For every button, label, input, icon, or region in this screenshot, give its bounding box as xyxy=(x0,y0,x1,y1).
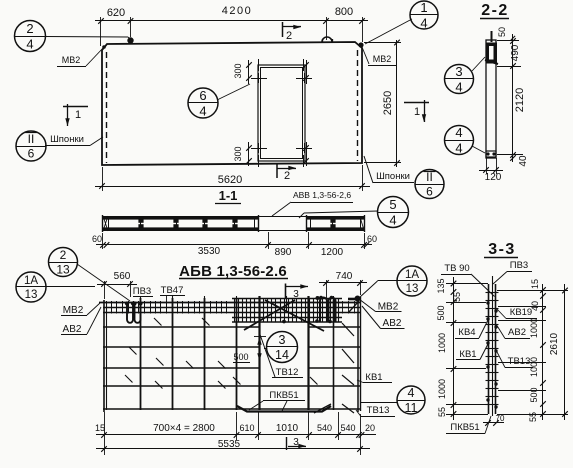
svg-text:ТВ 90: ТВ 90 xyxy=(444,263,469,274)
svg-text:4: 4 xyxy=(389,212,396,227)
svg-text:135: 135 xyxy=(436,278,446,293)
svg-text:3530: 3530 xyxy=(198,246,221,257)
svg-text:2: 2 xyxy=(60,248,67,262)
svg-text:2: 2 xyxy=(26,21,33,36)
svg-text:14: 14 xyxy=(275,348,289,362)
svg-text:55: 55 xyxy=(528,412,538,422)
svg-text:3: 3 xyxy=(293,289,299,300)
svg-text:40: 40 xyxy=(518,155,529,167)
svg-text:60: 60 xyxy=(92,234,102,244)
svg-text:13: 13 xyxy=(56,262,70,276)
svg-text:1А: 1А xyxy=(24,275,38,287)
svg-text:610: 610 xyxy=(239,423,254,433)
svg-text:560: 560 xyxy=(114,271,131,282)
svg-text:4: 4 xyxy=(408,386,415,400)
svg-text:15: 15 xyxy=(530,279,540,289)
svg-text:ПВ3: ПВ3 xyxy=(133,286,151,297)
svg-text:6: 6 xyxy=(28,146,35,160)
svg-text:2650: 2650 xyxy=(382,91,394,115)
svg-text:ТВ13: ТВ13 xyxy=(508,356,531,367)
svg-text:13: 13 xyxy=(25,289,38,301)
svg-text:500: 500 xyxy=(436,305,446,320)
svg-text:120: 120 xyxy=(485,172,502,183)
svg-text:МВ2: МВ2 xyxy=(378,302,399,313)
svg-text:2610: 2610 xyxy=(549,332,560,355)
svg-text:5535: 5535 xyxy=(218,439,241,450)
svg-text:55: 55 xyxy=(452,292,462,302)
svg-text:АВ2: АВ2 xyxy=(63,324,82,335)
svg-text:КВ4: КВ4 xyxy=(458,327,475,338)
svg-text:АВ2: АВ2 xyxy=(383,318,402,329)
svg-text:60: 60 xyxy=(367,234,377,244)
svg-text:3: 3 xyxy=(293,437,299,448)
svg-text:490: 490 xyxy=(510,44,521,61)
svg-text:ПВ3: ПВ3 xyxy=(510,260,528,271)
svg-text:ПКВ51: ПКВ51 xyxy=(269,390,298,401)
svg-text:300: 300 xyxy=(233,146,243,161)
svg-text:6: 6 xyxy=(426,184,433,198)
svg-text:740: 740 xyxy=(336,271,353,282)
svg-text:ТВ13: ТВ13 xyxy=(367,405,390,416)
svg-text:КВ1: КВ1 xyxy=(459,349,476,360)
svg-text:500: 500 xyxy=(233,352,248,362)
svg-text:2120: 2120 xyxy=(514,88,526,112)
svg-text:800: 800 xyxy=(335,6,353,18)
svg-text:890: 890 xyxy=(275,247,292,258)
svg-text:МВ2: МВ2 xyxy=(62,55,81,65)
svg-text:55: 55 xyxy=(437,407,447,417)
svg-text:15: 15 xyxy=(95,423,105,433)
svg-text:1А: 1А xyxy=(405,269,419,281)
svg-text:3: 3 xyxy=(455,64,462,79)
svg-text:2: 2 xyxy=(284,170,290,182)
svg-text:5: 5 xyxy=(389,197,396,212)
svg-text:1000: 1000 xyxy=(529,318,539,338)
svg-text:4: 4 xyxy=(455,125,462,140)
svg-text:6: 6 xyxy=(199,88,206,103)
svg-text:Шпонки: Шпонки xyxy=(50,134,84,145)
svg-text:50: 50 xyxy=(497,27,507,37)
svg-text:1: 1 xyxy=(75,109,81,121)
svg-text:1200: 1200 xyxy=(321,247,344,258)
svg-text:13: 13 xyxy=(406,283,419,295)
svg-text:540: 540 xyxy=(317,423,332,433)
svg-text:4: 4 xyxy=(420,15,427,30)
svg-text:70: 70 xyxy=(496,414,505,423)
svg-text:2-2: 2-2 xyxy=(481,2,509,19)
svg-text:4200: 4200 xyxy=(222,5,252,17)
svg-text:ПКВ51: ПКВ51 xyxy=(450,422,479,433)
svg-text:4: 4 xyxy=(455,79,462,94)
svg-text:Шпонки: Шпонки xyxy=(376,171,410,182)
svg-text:1010: 1010 xyxy=(276,423,299,434)
svg-text:II: II xyxy=(426,170,433,184)
svg-text:АБВ 1,3-56-2.6: АБВ 1,3-56-2.6 xyxy=(179,263,287,280)
svg-text:МВ2: МВ2 xyxy=(63,305,84,316)
svg-text:20: 20 xyxy=(365,423,375,433)
svg-text:1000: 1000 xyxy=(437,379,447,399)
svg-text:АВВ 1,3-56-2,6: АВВ 1,3-56-2,6 xyxy=(293,190,351,200)
svg-text:КВ19: КВ19 xyxy=(510,307,532,318)
svg-text:700×4 = 2800: 700×4 = 2800 xyxy=(153,423,215,434)
svg-text:4: 4 xyxy=(26,36,33,51)
svg-text:300: 300 xyxy=(233,63,243,78)
svg-text:ТВ12: ТВ12 xyxy=(276,367,299,378)
svg-text:540: 540 xyxy=(340,423,355,433)
svg-text:ТВ47: ТВ47 xyxy=(161,285,184,296)
svg-text:4: 4 xyxy=(455,140,462,155)
svg-text:11: 11 xyxy=(405,401,418,415)
svg-text:1: 1 xyxy=(420,0,427,15)
svg-text:АВ2: АВ2 xyxy=(508,327,526,338)
svg-text:500: 500 xyxy=(529,387,539,402)
svg-text:5620: 5620 xyxy=(218,174,242,186)
svg-text:1-1: 1-1 xyxy=(219,188,238,203)
svg-text:3-3: 3-3 xyxy=(488,241,516,258)
svg-text:II: II xyxy=(28,132,35,146)
svg-text:620: 620 xyxy=(107,7,125,19)
svg-text:1000: 1000 xyxy=(437,333,447,353)
svg-text:1: 1 xyxy=(414,106,420,118)
svg-text:3: 3 xyxy=(279,333,286,347)
svg-text:2: 2 xyxy=(286,30,292,42)
svg-text:4: 4 xyxy=(199,103,206,118)
svg-text:МВ2: МВ2 xyxy=(373,54,392,64)
svg-text:КВ1: КВ1 xyxy=(365,372,382,383)
